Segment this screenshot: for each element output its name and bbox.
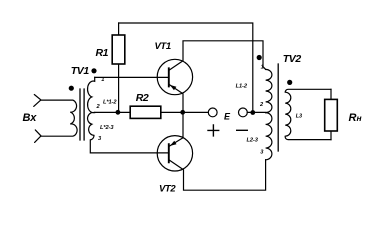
svg-text:E: E	[224, 112, 231, 122]
svg-text:L1-2: L1-2	[236, 83, 248, 89]
svg-text:L3: L3	[296, 114, 302, 120]
svg-text:R: R	[349, 112, 357, 124]
svg-text:1: 1	[261, 65, 264, 71]
svg-text:TV1: TV1	[71, 65, 90, 77]
svg-text:L*2-3: L*2-3	[100, 125, 114, 131]
svg-text:н: н	[357, 113, 362, 123]
svg-text:Вх: Вх	[23, 112, 38, 124]
svg-text:VT2: VT2	[159, 184, 176, 195]
svg-text:TV2: TV2	[283, 53, 302, 65]
svg-text:1: 1	[101, 77, 104, 83]
svg-text:L*1-2: L*1-2	[103, 99, 117, 105]
svg-text:VT1: VT1	[155, 41, 171, 52]
svg-text:R2: R2	[136, 92, 149, 104]
svg-text:L2-3: L2-3	[247, 137, 259, 143]
svg-text:R1: R1	[96, 47, 109, 59]
